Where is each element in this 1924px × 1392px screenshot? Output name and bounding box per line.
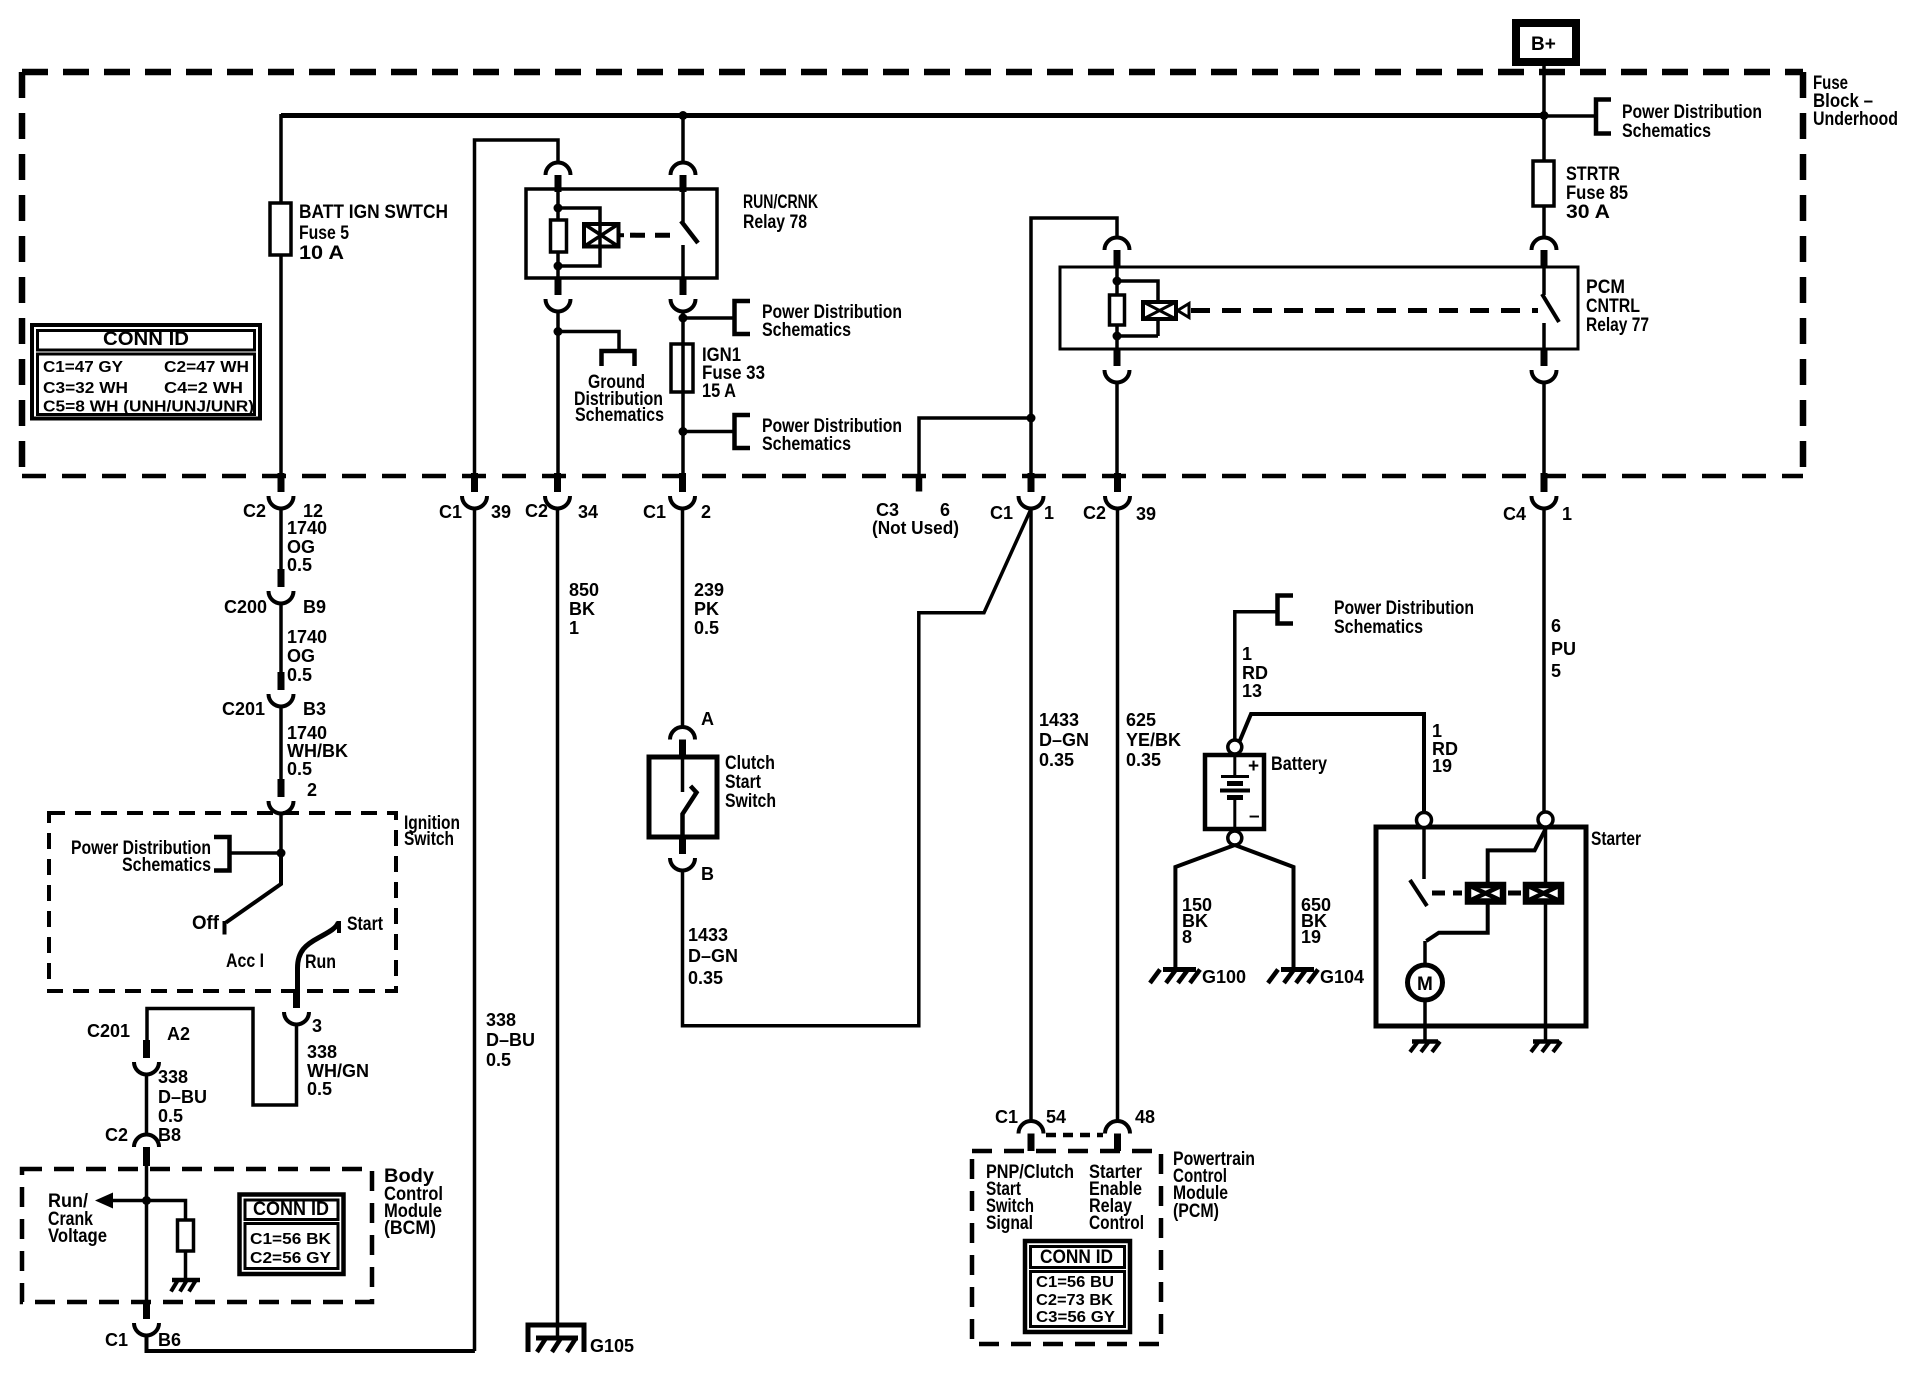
fuse BATT IGN SWTCH Fuse 5 10A xyxy=(270,203,291,255)
wire clutch B loop to C1-1 xyxy=(683,509,1032,1026)
svg-text:Battery: Battery xyxy=(1271,754,1327,775)
svg-text:CNTRL: CNTRL xyxy=(1586,296,1640,317)
svg-text:Acc I: Acc I xyxy=(226,951,264,972)
svg-text:1: 1 xyxy=(1044,503,1054,523)
off-page bracket PDS lower xyxy=(735,415,751,448)
svg-text:C1: C1 xyxy=(995,1107,1018,1127)
svg-text:1740: 1740 xyxy=(287,723,327,743)
connector relay78 switch bottom pin xyxy=(680,277,687,295)
svg-text:+: + xyxy=(1248,756,1259,777)
node junction C3 jumper on C1-1 wire xyxy=(1027,414,1036,423)
svg-text:D–BU: D–BU xyxy=(158,1087,207,1107)
wire relay77 coil top segment xyxy=(1115,267,1119,295)
BCM dashed box xyxy=(22,1169,372,1302)
wire 1740 OG segment 1 xyxy=(279,508,283,570)
starter switch feed xyxy=(1422,827,1426,879)
node B+ terminal box xyxy=(1516,23,1576,62)
svg-text:C2: C2 xyxy=(1083,503,1106,523)
wire pull-in coil to motor node xyxy=(1426,902,1487,942)
fuse STRTR Fuse 85 30A xyxy=(1533,161,1554,206)
svg-text:Schematics: Schematics xyxy=(1334,617,1423,638)
wire battery positive to starter feed xyxy=(1240,714,1425,813)
off-page bracket power distribution top right xyxy=(1596,100,1611,134)
wire relay78 resistor to bottom xyxy=(556,252,560,278)
svg-text:0.5: 0.5 xyxy=(287,555,312,575)
connector C1 pin 39 at fuse block xyxy=(471,473,478,492)
svg-text:BATT IGN SWTCH: BATT IGN SWTCH xyxy=(299,202,448,223)
relay78 switch top contact xyxy=(681,192,685,222)
svg-text:Run: Run xyxy=(305,952,336,973)
svg-text:G105: G105 xyxy=(590,1336,634,1356)
connector C1 pin B6 xyxy=(143,1301,150,1319)
wire B+ down to bus xyxy=(1542,62,1546,161)
svg-text:Start: Start xyxy=(347,914,384,935)
relay RUN/CRNK Relay 78 box xyxy=(526,189,717,278)
svg-text:13: 13 xyxy=(1242,681,1262,701)
node battery negative terminal xyxy=(1228,831,1242,845)
relay77 coil arrow xyxy=(1178,304,1190,318)
svg-text:6: 6 xyxy=(940,500,950,520)
wire 850 BK down to G105 xyxy=(556,508,560,1338)
wire C1-39 down leg xyxy=(473,508,477,1351)
svg-text:2: 2 xyxy=(307,780,317,800)
ignition Run blade tip xyxy=(337,921,341,933)
clutch switch top contact xyxy=(681,759,685,792)
resistor relay78 coil suppressor xyxy=(551,220,567,252)
svg-text:B9: B9 xyxy=(303,597,326,617)
svg-text:Fuse 5: Fuse 5 xyxy=(299,223,349,244)
resistor relay77 coil suppressor xyxy=(1110,295,1125,325)
svg-text:5: 5 xyxy=(1551,661,1561,681)
run/crank voltage arrow xyxy=(112,1199,147,1203)
svg-text:48: 48 xyxy=(1135,1107,1155,1127)
connector C201 pin A2 xyxy=(143,1040,150,1058)
connector relay77 switch bottom pin xyxy=(1541,348,1548,366)
svg-text:G104: G104 xyxy=(1320,967,1364,987)
dashed actuation line relay78 xyxy=(630,233,677,238)
connector relay78 coil bottom pin xyxy=(555,277,562,295)
wire hold-in coil vertical xyxy=(1544,827,1548,885)
svg-text:Signal: Signal xyxy=(986,1213,1033,1234)
wire motor feed xyxy=(1423,941,1427,965)
svg-text:6: 6 xyxy=(1551,616,1561,636)
battery box xyxy=(1205,755,1264,829)
svg-text:C2=47 WH: C2=47 WH xyxy=(164,359,249,376)
connector C1 pin 1 at fuse block xyxy=(1028,473,1035,492)
svg-text:D–GN: D–GN xyxy=(688,946,738,966)
svg-text:C1: C1 xyxy=(990,503,1013,523)
ground starter solenoid xyxy=(1533,1039,1559,1044)
resistor BCM pull-down xyxy=(178,1220,194,1251)
relay77 coil symbol X-box xyxy=(1143,302,1176,319)
svg-text:54: 54 xyxy=(1046,1107,1066,1127)
svg-text:10 A: 10 A xyxy=(299,243,344,264)
wire PDS to battery positive xyxy=(1235,612,1278,740)
svg-text:34: 34 xyxy=(578,502,598,522)
connector PCM pin 48 xyxy=(1105,1121,1130,1134)
svg-text:239: 239 xyxy=(694,580,724,600)
svg-text:C1: C1 xyxy=(439,502,462,522)
svg-text:(BCM): (BCM) xyxy=(384,1218,436,1239)
connector clutch switch pin B xyxy=(679,836,686,854)
connector ignition switch pin 3 xyxy=(293,990,300,1008)
node battery positive terminal xyxy=(1228,740,1242,754)
wire battery negative split left xyxy=(1175,845,1234,967)
svg-text:B3: B3 xyxy=(303,699,326,719)
wire resistor to ground xyxy=(184,1251,188,1280)
svg-text:19: 19 xyxy=(1432,756,1452,776)
wire 239 PK from C1-2 to clutch A xyxy=(681,508,685,727)
svg-text:1: 1 xyxy=(1562,504,1572,524)
wire fuse5 down to connector C2-12 xyxy=(279,255,283,474)
svg-text:Relay 78: Relay 78 xyxy=(743,212,807,233)
svg-text:C1=56 BU: C1=56 BU xyxy=(1036,1274,1114,1291)
wire fuse85 to relay77 xyxy=(1542,206,1546,238)
svg-text:C200: C200 xyxy=(224,597,267,617)
svg-text:Control: Control xyxy=(1089,1213,1144,1234)
connector cap relay77 coil pin xyxy=(1105,238,1130,251)
wire relay78 coil top segment xyxy=(556,192,560,220)
svg-text:C2=73 BK: C2=73 BK xyxy=(1036,1292,1113,1309)
svg-text:Power Distribution: Power Distribution xyxy=(1334,598,1474,619)
svg-text:C3: C3 xyxy=(876,500,899,520)
ground G104 xyxy=(1281,967,1314,972)
svg-text:Clutch: Clutch xyxy=(725,753,775,774)
connector cap relay78 coil pin xyxy=(546,163,571,176)
node relay77 coil loop top junction xyxy=(1113,277,1122,286)
connector C1 pin 2 at fuse block xyxy=(679,473,686,492)
svg-text:0.5: 0.5 xyxy=(287,665,312,685)
wire relay77 coil pin to C2-39 xyxy=(1115,382,1119,474)
svg-text:M: M xyxy=(1417,974,1433,995)
svg-text:C1: C1 xyxy=(643,502,666,522)
svg-text:Power Distribution: Power Distribution xyxy=(1622,102,1762,123)
svg-text:–: – xyxy=(1249,806,1260,827)
wire pin2 into ignition switch xyxy=(279,813,283,855)
dashed connector link PCM xyxy=(1046,1133,1103,1138)
svg-text:0.35: 0.35 xyxy=(1126,750,1161,770)
svg-text:PK: PK xyxy=(694,599,719,619)
svg-text:C1=47 GY: C1=47 GY xyxy=(43,359,123,376)
svg-text:(Not Used): (Not Used) xyxy=(872,518,959,538)
svg-text:1433: 1433 xyxy=(688,925,728,945)
wire relay78 coil pin down to C2-34 xyxy=(556,311,560,474)
wire 6 PU from C4-1 to starter xyxy=(1542,508,1546,813)
off-page bracket PDS ignition xyxy=(214,837,230,871)
dashed actuation line relay77 xyxy=(1191,308,1538,313)
svg-text:30 A: 30 A xyxy=(1566,202,1610,223)
connector C201 pin B3 xyxy=(278,672,285,690)
svg-text:C3=32 WH: C3=32 WH xyxy=(43,380,128,397)
svg-text:1740: 1740 xyxy=(287,518,327,538)
node relay78 coil loop bottom junction xyxy=(554,262,563,271)
svg-text:Switch: Switch xyxy=(725,791,776,812)
svg-text:Fuse 85: Fuse 85 xyxy=(1566,183,1628,204)
connector C4 pin 1 at fuse block xyxy=(1541,473,1548,492)
svg-text:C2: C2 xyxy=(525,501,548,521)
connector relay77 coil bottom pin xyxy=(1114,348,1121,366)
svg-text:STRTR: STRTR xyxy=(1566,164,1620,185)
svg-text:Starter: Starter xyxy=(1591,829,1641,850)
svg-text:BK: BK xyxy=(569,599,595,619)
svg-text:338: 338 xyxy=(486,1010,516,1030)
connector C2 pin 39 at fuse block xyxy=(1114,473,1121,492)
off-page bracket PDS battery xyxy=(1278,596,1294,624)
motor M circle xyxy=(1408,965,1443,1000)
dashed solenoid link left xyxy=(1432,891,1462,896)
wire C3-6 not used jumper xyxy=(919,418,1031,476)
svg-text:C3=56 GY: C3=56 GY xyxy=(1036,1309,1115,1326)
ignition switch blade to Off xyxy=(226,853,281,923)
svg-text:OG: OG xyxy=(287,537,315,557)
wire 1740 WH/BK segment xyxy=(279,706,283,780)
wire relay77 resistor to box bottom xyxy=(1115,325,1119,349)
svg-text:338: 338 xyxy=(307,1042,337,1062)
svg-text:0.5: 0.5 xyxy=(694,618,719,638)
fuse block underhood dashed box xyxy=(22,69,1803,76)
relay77 switch blade xyxy=(1542,294,1559,322)
svg-text:RUN/CRNK: RUN/CRNK xyxy=(743,192,818,213)
fuse IGN1 Fuse 33 15A xyxy=(671,344,693,392)
PCM dashed box xyxy=(972,1151,1161,1344)
svg-text:C2: C2 xyxy=(105,1125,128,1145)
ground BCM internal xyxy=(172,1278,200,1283)
svg-text:Schematics: Schematics xyxy=(122,855,211,876)
starter switch blade xyxy=(1410,880,1427,906)
wire relay77 coil feed jog xyxy=(1031,218,1117,474)
ignition Run blade curve xyxy=(298,922,339,991)
connector PCM C1 pin 54 xyxy=(1019,1121,1044,1134)
wire main bus xyxy=(281,113,1544,118)
svg-text:A: A xyxy=(701,709,714,729)
connector cap relay77 switch pin xyxy=(1532,238,1557,251)
ground G105 xyxy=(528,1325,584,1352)
relay78 switch blade xyxy=(681,221,698,243)
connector ignition switch pin 2 xyxy=(278,779,285,797)
wire 1433 D-GN from C1-1 to PCM 54 xyxy=(1029,508,1033,1121)
svg-text:Voltage: Voltage xyxy=(48,1226,107,1247)
svg-text:0.35: 0.35 xyxy=(688,968,723,988)
wire relay78 switch pin down to C1-2 xyxy=(681,311,685,474)
svg-text:PCM: PCM xyxy=(1586,277,1625,298)
node starter terminal right xyxy=(1538,812,1553,827)
clutch switch blade xyxy=(683,786,697,838)
node junction bus / relay78 xyxy=(679,111,688,120)
svg-text:D–BU: D–BU xyxy=(486,1030,535,1050)
svg-text:Start: Start xyxy=(725,772,762,793)
svg-text:G100: G100 xyxy=(1202,967,1246,987)
wire batt ign feed from bus xyxy=(279,114,283,203)
off-page bracket ground distribution xyxy=(602,351,635,366)
wire bus to relay78 switch pin xyxy=(681,116,685,163)
svg-text:PU: PU xyxy=(1551,639,1576,659)
svg-text:0.5: 0.5 xyxy=(486,1050,511,1070)
off-page bracket PDS upper xyxy=(735,301,751,334)
dashed solenoid link middle xyxy=(1508,891,1522,896)
svg-text:39: 39 xyxy=(491,502,511,522)
relay PCM CNTRL Relay 77 box xyxy=(1060,267,1578,349)
wire bus to power distribution tag xyxy=(1544,114,1596,118)
relay77 switch bottom contact xyxy=(1542,323,1546,349)
svg-text:C2: C2 xyxy=(243,501,266,521)
svg-text:1: 1 xyxy=(569,618,579,638)
wire pin3 z-jog to C201-A2 xyxy=(147,1009,297,1106)
ignition Off contact xyxy=(223,921,227,935)
wire BCM resistor branch xyxy=(147,1201,186,1221)
svg-text:Off: Off xyxy=(192,913,220,934)
svg-text:338: 338 xyxy=(158,1067,188,1087)
svg-text:CONN ID: CONN ID xyxy=(103,329,189,350)
svg-text:39: 39 xyxy=(1136,504,1156,524)
wire motor to ground xyxy=(1423,1000,1427,1041)
svg-text:0.5: 0.5 xyxy=(307,1079,332,1099)
relay78 switch bottom contact xyxy=(681,245,685,278)
svg-text:1433: 1433 xyxy=(1039,710,1079,730)
svg-text:CONN ID: CONN ID xyxy=(1040,1247,1113,1268)
svg-text:CONN ID: CONN ID xyxy=(253,1199,329,1220)
svg-text:625: 625 xyxy=(1126,710,1156,730)
svg-text:Schematics: Schematics xyxy=(575,405,664,426)
table CONN ID PCM xyxy=(1025,1241,1130,1332)
svg-text:Relay 77: Relay 77 xyxy=(1586,315,1649,336)
connector cap relay78 switch pin xyxy=(671,163,696,176)
svg-text:WH/BK: WH/BK xyxy=(287,741,348,761)
svg-text:Switch: Switch xyxy=(404,829,454,850)
svg-text:Underhood: Underhood xyxy=(1813,109,1898,130)
wire branch to PDS lower xyxy=(683,430,735,434)
svg-text:8: 8 xyxy=(1182,927,1192,947)
connector C2 pin 12 at fuse block xyxy=(278,473,285,492)
wire 1740 OG segment 2 xyxy=(279,603,283,673)
node relay78 coil loop top junction xyxy=(554,204,563,213)
svg-text:B6: B6 xyxy=(158,1330,181,1350)
svg-text:B8: B8 xyxy=(158,1125,181,1145)
svg-text:WH/GN: WH/GN xyxy=(307,1061,369,1081)
wire battery negative split right xyxy=(1235,845,1294,967)
svg-text:YE/BK: YE/BK xyxy=(1126,730,1181,750)
wire branch to PDS upper xyxy=(683,316,735,320)
svg-text:0.5: 0.5 xyxy=(158,1106,183,1126)
wire branch to ground distribution xyxy=(558,332,619,352)
svg-text:Schematics: Schematics xyxy=(1622,121,1711,142)
svg-text:0.35: 0.35 xyxy=(1039,750,1074,770)
connector clutch switch pin A xyxy=(670,727,695,740)
svg-text:C1: C1 xyxy=(105,1330,128,1350)
svg-text:15 A: 15 A xyxy=(702,381,736,402)
svg-text:OG: OG xyxy=(287,646,315,666)
svg-text:1: 1 xyxy=(1432,721,1442,741)
ground starter motor xyxy=(1412,1039,1438,1044)
svg-text:C4=2 WH: C4=2 WH xyxy=(164,380,243,397)
svg-text:850: 850 xyxy=(569,580,599,600)
relay78 coil symbol X-box xyxy=(584,224,619,247)
clutch start switch box xyxy=(649,757,717,837)
table CONN ID fuse block xyxy=(32,325,260,419)
connector C200 pin B9 xyxy=(278,569,285,587)
svg-text:C4: C4 xyxy=(1503,504,1526,524)
svg-text:2: 2 xyxy=(701,502,711,522)
connector C2 pin B8 xyxy=(134,1134,159,1147)
svg-text:1740: 1740 xyxy=(287,627,327,647)
svg-text:1: 1 xyxy=(1242,644,1252,664)
node relay77 coil loop bottom junction xyxy=(1113,332,1122,341)
starter relay contact arm xyxy=(1488,828,1546,885)
ground G100 xyxy=(1163,967,1196,972)
wire PDS bracket to ignition junction xyxy=(230,851,282,855)
svg-text:3: 3 xyxy=(312,1016,322,1036)
solenoid coil hold-in X-box xyxy=(1526,885,1561,902)
table CONN ID BCM xyxy=(240,1195,344,1275)
svg-text:(PCM): (PCM) xyxy=(1173,1201,1219,1222)
svg-text:C1=56 BK: C1=56 BK xyxy=(250,1231,331,1248)
svg-text:0.5: 0.5 xyxy=(287,759,312,779)
svg-text:C201: C201 xyxy=(87,1021,130,1041)
wire 625 YE/BK from C2-39 to PCM 48 xyxy=(1116,508,1120,1121)
svg-text:D–GN: D–GN xyxy=(1039,730,1089,750)
connector C2 pin 34 at fuse block xyxy=(554,473,561,492)
node BCM junction xyxy=(142,1196,151,1205)
wire B6 to C1-39 long return xyxy=(147,1335,475,1351)
svg-text:C5=8 WH (UNH/UNJ/UNR): C5=8 WH (UNH/UNJ/UNR) xyxy=(43,399,254,416)
wire relay78 coil loop xyxy=(558,208,600,266)
node junction ground distribution branch xyxy=(554,327,563,336)
svg-text:Schematics: Schematics xyxy=(762,434,851,455)
wire relay77 coil loop xyxy=(1117,281,1158,302)
battery cells xyxy=(1233,757,1236,775)
connector pin stub C3-6 xyxy=(916,474,923,492)
svg-text:RD: RD xyxy=(1242,663,1268,683)
wire B8 through BCM xyxy=(145,1166,149,1302)
starter box xyxy=(1376,827,1586,1026)
svg-text:B+: B+ xyxy=(1531,34,1556,55)
ignition switch dashed box xyxy=(49,813,396,991)
node junction PDS branch lower xyxy=(679,427,688,436)
wire 338 D-BU to B8 xyxy=(145,1074,149,1135)
svg-text:B: B xyxy=(701,864,714,884)
svg-text:19: 19 xyxy=(1301,927,1321,947)
node junction bus / B+ xyxy=(1540,111,1549,120)
svg-text:C201: C201 xyxy=(222,699,265,719)
svg-text:Schematics: Schematics xyxy=(762,320,851,341)
node starter terminal left xyxy=(1417,813,1432,828)
svg-text:C2=56 GY: C2=56 GY xyxy=(250,1250,331,1267)
wire jog C1-39 to relay78 coil xyxy=(475,140,559,474)
solenoid coil pull-in X-box xyxy=(1468,885,1503,902)
relay77 switch top contact xyxy=(1542,267,1546,295)
node junction PDS branch upper xyxy=(679,314,688,323)
node ignition feed junction xyxy=(277,849,286,858)
wire relay77 switch pin to C4-1 xyxy=(1542,382,1546,474)
svg-text:A2: A2 xyxy=(167,1024,190,1044)
